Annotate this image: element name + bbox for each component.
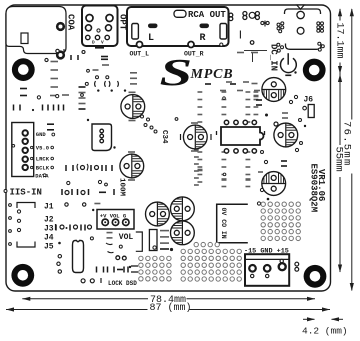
svg-text:GND: GND xyxy=(36,131,47,138)
svg-text:V: V xyxy=(101,40,104,46)
svg-text:IIS-IN: IIS-IN xyxy=(10,188,42,198)
svg-text:RCA OUT: RCA OUT xyxy=(188,10,226,20)
svg-text:100M: 100M xyxy=(117,178,125,197)
svg-text:DATA: DATA xyxy=(35,173,49,180)
svg-text:VOL: VOL xyxy=(119,233,134,242)
svg-text:J3: J3 xyxy=(44,225,54,234)
svg-text:76.5mm: 76.5mm xyxy=(340,121,352,167)
svg-text:LOCK DSD: LOCK DSD xyxy=(108,280,137,287)
svg-text:OUT_L: OUT_L xyxy=(130,51,150,58)
svg-text:J1: J1 xyxy=(44,203,54,212)
svg-text:J4: J4 xyxy=(44,234,54,243)
svg-text:+V VOL G: +V VOL G xyxy=(100,212,127,219)
svg-text:COA: COA xyxy=(66,14,76,31)
svg-text:LRCK: LRCK xyxy=(36,156,50,163)
svg-text:MPCB: MPCB xyxy=(190,67,234,82)
svg-text:87 (mm): 87 (mm) xyxy=(150,302,192,314)
svg-text:J2: J2 xyxy=(44,216,54,225)
svg-text:17.1mm: 17.1mm xyxy=(333,23,344,59)
svg-text:J6: J6 xyxy=(304,96,314,105)
svg-text:C34: C34 xyxy=(160,130,168,144)
svg-text:4.2 (mm): 4.2 (mm) xyxy=(302,326,348,337)
svg-text:R: R xyxy=(200,33,206,44)
svg-text:V5.0: V5.0 xyxy=(36,145,49,152)
svg-text:VR1.06: VR1.06 xyxy=(316,169,326,201)
svg-text:D: D xyxy=(92,40,95,46)
svg-text:0V CO IN: 0V CO IN xyxy=(220,208,227,239)
svg-text:J5: J5 xyxy=(44,243,54,252)
svg-text:L: L xyxy=(148,33,154,44)
svg-text:BCLK: BCLK xyxy=(36,165,50,172)
svg-text:DC_IN: DC_IN xyxy=(268,44,278,71)
svg-text:S: S xyxy=(160,51,193,93)
